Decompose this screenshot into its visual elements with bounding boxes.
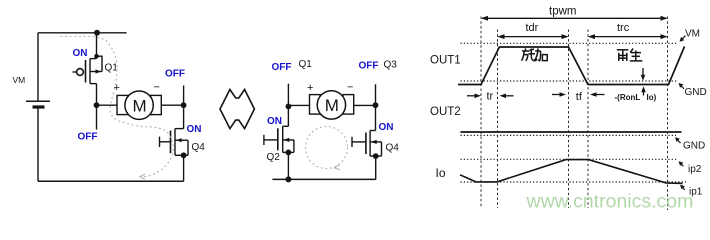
node motor right (left circuit) <box>181 102 187 108</box>
wire motor left lead (middle) <box>288 104 309 106</box>
transistor Q1 (PMOS high-side) <box>73 33 103 105</box>
motor M (left circuit) <box>117 91 161 119</box>
svg-text:ON: ON <box>379 122 394 133</box>
svg-text:-(RonL: -(RonL <box>615 93 641 102</box>
svg-text:tpwm: tpwm <box>549 5 576 17</box>
double arrow (swap symbol) <box>220 90 254 129</box>
dimension arrow tr (right) <box>503 95 514 97</box>
wire stub up to off Q3 position <box>183 86 185 106</box>
transistor Q4 (NMOS low-side, middle circuit) <box>352 105 382 179</box>
pointer arrow VM <box>682 36 686 40</box>
net GND level OUT1 (dotted) <box>461 80 678 82</box>
guide dashed vertical x=568.5 <box>568 30 570 209</box>
svg-text:tr: tr <box>487 90 494 102</box>
pointer arrow GND (OUT1) <box>681 85 685 89</box>
svg-text:ON: ON <box>187 124 202 135</box>
pointer arrow ip2 <box>681 163 684 166</box>
wire stub down to off Q2 position <box>96 105 98 129</box>
svg-text:ON: ON <box>73 48 88 59</box>
dimension arrow tf (right) <box>593 94 605 96</box>
dimension arrow trc <box>589 36 667 38</box>
svg-text:OUT2: OUT2 <box>430 106 461 118</box>
node motor left (middle circuit) <box>286 104 292 110</box>
svg-text:M: M <box>325 96 339 115</box>
svg-text:trc: trc <box>617 22 630 34</box>
node motor left (left circuit) <box>94 102 100 108</box>
svg-text:tf: tf <box>576 91 583 103</box>
net ip1 level (dotted) <box>461 181 687 183</box>
node junction top rail / Q1 drain <box>94 30 100 36</box>
wire motor right lead (middle) <box>354 104 376 106</box>
wire motor left lead <box>97 104 118 106</box>
svg-text:Q1: Q1 <box>299 59 313 70</box>
svg-text:+: + <box>307 82 313 94</box>
waveform OUT2 <box>461 131 682 133</box>
wire top rail (left circuit) <box>38 32 127 34</box>
svg-text:ip2: ip2 <box>688 164 702 175</box>
svg-text:OFF: OFF <box>359 60 379 71</box>
svg-text:Io: Io <box>436 166 446 180</box>
pointer arrow down to GND gap <box>642 68 644 78</box>
svg-text:−: − <box>154 82 160 94</box>
node bottom rail junction (middle circuit) <box>285 176 291 182</box>
label 再生 (regeneration) <box>617 49 643 62</box>
wire circulating current loop (dotted, middle circuit) <box>306 127 348 169</box>
svg-text:Io): Io) <box>647 93 657 102</box>
svg-text:Q1: Q1 <box>105 63 119 74</box>
battery VM positive plate <box>26 100 50 102</box>
svg-text:OFF: OFF <box>272 62 292 73</box>
svg-text:Q2: Q2 <box>267 152 281 163</box>
dimension arrow tdr <box>499 36 568 38</box>
svg-text:−: − <box>347 82 353 94</box>
wire left column upper (VM to rail) <box>37 33 39 101</box>
svg-text:VM: VM <box>685 28 700 39</box>
guide dashed vertical x=481 <box>480 17 482 209</box>
svg-text:tdr: tdr <box>526 22 539 34</box>
net ip2 level (dotted) <box>461 158 678 160</box>
svg-text:OUT1: OUT1 <box>430 55 461 67</box>
svg-text:ON: ON <box>267 116 282 127</box>
wire stub Q1 (middle circuit) <box>287 84 289 107</box>
waveform OUT1 <box>458 47 685 85</box>
svg-text:Q3: Q3 <box>384 60 398 71</box>
svg-text:www.cntronics.com: www.cntronics.com <box>526 191 694 213</box>
wire motor right lead <box>161 104 183 106</box>
dimension arrow tf (left) <box>552 94 563 96</box>
svg-text:VM: VM <box>13 75 26 85</box>
pointer arrow GND (OUT2) <box>677 139 681 143</box>
wire current path (dotted, left circuit) <box>61 37 174 177</box>
net VM level (dotted) <box>461 42 679 44</box>
transistor Q2 (NMOS low-side, middle circuit) <box>264 106 294 179</box>
wire bottom rail (left circuit) <box>38 180 184 182</box>
battery VM negative plate <box>33 105 45 108</box>
svg-text:OFF: OFF <box>78 132 98 143</box>
transistor Q4 (NMOS low-side, left circuit) <box>160 105 189 181</box>
svg-text:OFF: OFF <box>165 69 185 80</box>
motor M (middle circuit) <box>310 91 354 119</box>
svg-text:Q4: Q4 <box>192 142 206 153</box>
node motor right (middle circuit) <box>373 102 379 108</box>
svg-text:M: M <box>133 96 147 115</box>
dimension arrow tr (left) <box>467 95 478 97</box>
wire stub Q3 (middle circuit) <box>375 84 377 105</box>
wire left column lower (battery to bottom rail) <box>37 107 39 181</box>
guide dashed vertical x=667.5 <box>667 17 669 211</box>
guide dashed vertical x=588 <box>587 30 589 209</box>
pointer arrow ip1 <box>682 187 685 190</box>
pointer arrow up to OUT1 low <box>643 89 645 96</box>
wire bottom rail (middle circuit) <box>272 178 375 180</box>
svg-text:Q4: Q4 <box>386 143 400 154</box>
guide dashed vertical x=497.5 <box>497 30 499 209</box>
net GND level OUT2 (dotted) <box>461 134 677 136</box>
waveform Io <box>460 160 683 184</box>
svg-text:GND: GND <box>685 87 707 98</box>
svg-text:GND: GND <box>683 140 705 151</box>
dimension arrow tpwm <box>482 17 667 19</box>
label 施加 (apply) <box>522 48 548 61</box>
